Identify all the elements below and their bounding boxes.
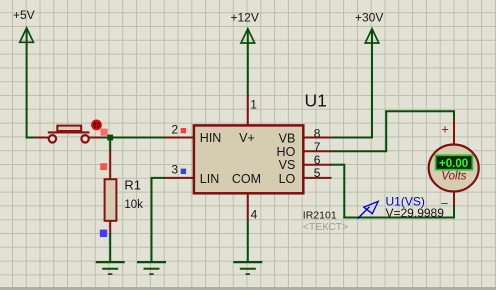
svg-text:COM: COM	[232, 172, 261, 186]
svg-text:4: 4	[251, 208, 258, 222]
svg-text:VB: VB	[279, 131, 296, 145]
svg-text:<ТЕКСТ>: <ТЕКСТ>	[303, 221, 348, 233]
junction node	[107, 135, 113, 141]
button actuator (red dot)	[91, 120, 102, 131]
svg-text:V=29.9989: V=29.9989	[386, 206, 445, 220]
marker pin 2	[181, 128, 186, 133]
svg-text:VS: VS	[279, 158, 296, 172]
wire R1 to ground	[109, 233, 111, 262]
svg-text:HO: HO	[277, 145, 296, 159]
svg-text:+0.00: +0.00	[439, 158, 468, 170]
wire LIN horizontal	[152, 177, 166, 179]
svg-text:1: 1	[250, 97, 257, 111]
svg-text:3: 3	[171, 163, 178, 177]
svg-text:IR2101: IR2101	[303, 209, 337, 221]
wire VS across	[343, 217, 455, 219]
marker pin 3	[181, 169, 186, 174]
voltmeter	[429, 120, 479, 218]
logic state marker (button)	[101, 129, 108, 136]
svg-text:R1: R1	[124, 178, 141, 193]
svg-text:6: 6	[314, 153, 321, 167]
ground (R1)	[96, 262, 125, 274]
svg-text:LO: LO	[279, 172, 296, 186]
svg-text:+30V: +30V	[355, 11, 383, 25]
pin 8 lead	[304, 137, 331, 139]
pin 5 lead	[304, 177, 332, 179]
wire button left lead	[35, 137, 49, 139]
power terminal +5V	[13, 8, 35, 43]
power terminal +30V	[355, 11, 383, 43]
pin 6 lead	[304, 164, 331, 166]
svg-text:+5V: +5V	[13, 8, 35, 22]
svg-text:10k: 10k	[124, 199, 143, 211]
wire +30V down	[371, 42, 373, 138]
marker R1 top	[100, 163, 107, 170]
pin 4 lead	[247, 194, 249, 221]
svg-text:HIN: HIN	[200, 131, 222, 145]
svg-text:+: +	[441, 122, 449, 137]
wire VS down	[343, 164, 345, 218]
wire button to HIN	[102, 137, 166, 139]
wire +30V to VB	[330, 137, 373, 139]
svg-text:5: 5	[314, 166, 321, 180]
svg-text:U1: U1	[305, 91, 327, 111]
svg-text:V+: V+	[239, 131, 255, 145]
wire +12V down	[247, 42, 249, 96]
svg-text:8: 8	[314, 126, 321, 140]
wire LIN down	[151, 177, 153, 263]
ground (LIN)	[137, 262, 166, 274]
svg-text:+12V: +12V	[231, 11, 259, 25]
svg-text:7: 7	[314, 140, 321, 154]
pin 2 lead	[164, 137, 193, 139]
pin 7 lead	[304, 150, 331, 152]
resistor R1	[105, 150, 117, 234]
svg-text:LIN: LIN	[200, 172, 219, 186]
voltmeter LCD	[436, 155, 473, 170]
ground (COM)	[233, 262, 262, 274]
wire button right lead	[89, 137, 103, 139]
svg-text:2: 2	[171, 122, 178, 136]
wire to voltmeter plus	[453, 110, 455, 121]
voltage probe arrow	[358, 201, 379, 218]
wire +5V down	[26, 42, 28, 139]
svg-text:Volts: Volts	[441, 171, 466, 183]
wire HO up	[385, 111, 387, 152]
power terminal +12V	[231, 11, 259, 43]
wire +5V to button	[27, 137, 38, 139]
wire HO top across	[385, 110, 454, 112]
IC U1 body	[194, 125, 303, 193]
wire COM to ground	[247, 220, 249, 262]
pin 3 lead	[164, 177, 193, 179]
wire junction down	[109, 138, 111, 151]
pushbutton	[48, 126, 90, 143]
pin 1 lead	[247, 96, 249, 126]
wire HO right	[330, 150, 386, 152]
wire VS right	[330, 164, 344, 166]
marker R1 bottom	[100, 230, 107, 237]
